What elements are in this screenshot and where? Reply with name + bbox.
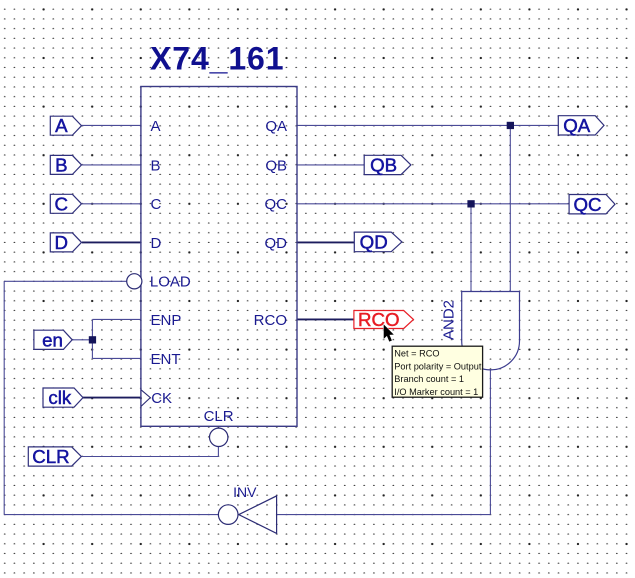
svg-text:Branch count = 1: Branch count = 1 <box>394 374 464 384</box>
svg-text:X74_161: X74_161 <box>150 40 284 76</box>
svg-text:ENP: ENP <box>151 312 182 329</box>
svg-text:RCO: RCO <box>254 312 287 329</box>
svg-text:CLR: CLR <box>32 446 69 467</box>
svg-text:B: B <box>151 157 161 174</box>
svg-text:C: C <box>55 194 69 215</box>
svg-text:en: en <box>42 329 63 350</box>
svg-text:Port polarity = Output: Port polarity = Output <box>394 361 482 371</box>
svg-text:I/O Marker count = 1: I/O Marker count = 1 <box>394 387 478 397</box>
svg-text:AND2: AND2 <box>441 300 458 340</box>
svg-text:CLR: CLR <box>204 408 234 425</box>
svg-text:QB: QB <box>265 157 287 174</box>
svg-text:QC: QC <box>573 194 601 215</box>
svg-text:ENT: ENT <box>151 351 181 368</box>
svg-text:INV: INV <box>233 484 257 500</box>
svg-text:A: A <box>55 115 68 136</box>
svg-text:QD: QD <box>360 232 388 253</box>
svg-text:QC: QC <box>265 196 288 213</box>
svg-text:LOAD: LOAD <box>150 274 191 291</box>
svg-text:B: B <box>55 155 67 176</box>
svg-text:D: D <box>151 235 162 252</box>
svg-text:QB: QB <box>370 155 397 176</box>
svg-text:RCO: RCO <box>358 309 400 330</box>
svg-text:C: C <box>151 196 162 213</box>
svg-text:D: D <box>55 232 69 253</box>
svg-text:Net = RCO: Net = RCO <box>394 349 439 359</box>
svg-text:QA: QA <box>265 118 287 135</box>
svg-text:A: A <box>151 118 161 135</box>
svg-text:QD: QD <box>265 235 288 252</box>
svg-text:clk: clk <box>48 387 71 408</box>
svg-text:CK: CK <box>151 390 172 407</box>
svg-text:QA: QA <box>563 115 591 136</box>
